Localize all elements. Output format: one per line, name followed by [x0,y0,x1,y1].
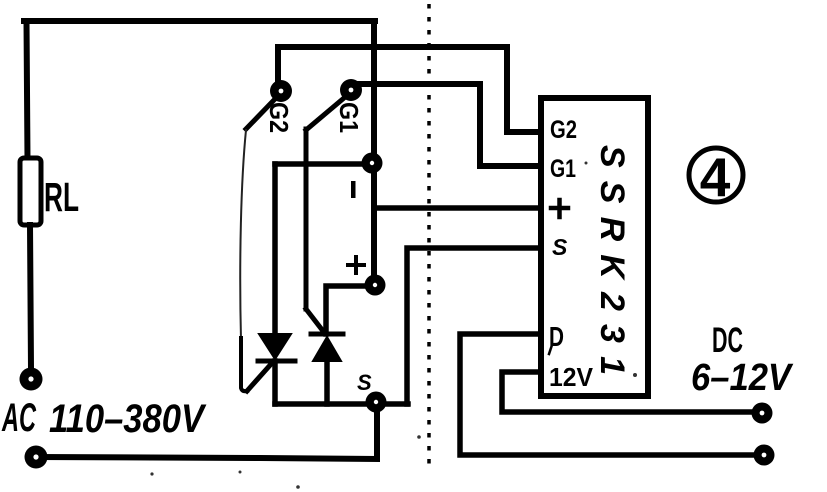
node S [366,392,387,413]
terminal DC upper [752,403,773,424]
svg-text:G2: G2 [264,102,294,133]
switch contact G2 [270,80,292,102]
wire G1 gate lead vertical [304,129,309,309]
wire G1 net: from contact right, down, to module G1 pin [354,84,539,166]
label plus [348,257,364,273]
node minus [362,153,383,174]
svg-text:AC: AC [1,396,36,440]
switch contact G1 [340,79,362,101]
terminal DC lower [754,445,775,466]
wire + node to right SCR cathode [326,286,374,334]
scan specks [150,162,637,489]
svg-text:RL: RL [44,174,79,220]
resistor RL [20,158,41,225]
svg-text:6–12V: 6–12V [691,357,793,399]
svg-text:S: S [552,234,568,260]
switch arm G1 [306,98,344,130]
wire top horizontal [24,18,375,24]
node plus [365,275,386,296]
svg-text:S: S [357,370,372,395]
svg-text:12V: 12V [549,362,594,392]
wire AC bottom run to S node [36,403,377,459]
svg-text:G1: G1 [550,155,576,183]
circled 4 [689,148,743,202]
thyristor V2 (right SCR, conducts upward) [306,309,343,404]
wire + pin of module [374,205,539,211]
wire bottom bar between SCRs and S node [275,401,408,407]
svg-text:G2: G2 [550,116,577,144]
wire node to left SCR anode [275,161,372,167]
module SSRK231 box [541,98,648,396]
thyristor V1 (left SCR, conducts downward) [247,164,295,404]
wire G2 net: from contact up, over to module G2 pin [278,47,541,132]
wire main vertical from top corner to + node [371,21,377,284]
wire module 12V pin to DC upper terminal [502,372,762,412]
wire module D pin to DC lower terminal [460,334,764,455]
label minus (rotated bar) [351,181,356,198]
wire S to module S pin [407,248,539,404]
pin label + [551,200,568,217]
wire left vertical to RL top [27,21,28,160]
wire RL bottom lead [30,225,31,368]
terminal AC lower [25,446,48,469]
terminal AC upper [20,368,43,391]
svg-text:110–380V: 110–380V [49,397,207,441]
svg-text:4: 4 [700,146,731,208]
svg-text:G1: G1 [334,102,364,133]
switch arm G2 [246,100,274,129]
wire G2 gate lead (thin arc) [240,130,246,340]
dotted separation line [427,4,431,470]
svg-text:DC: DC [712,321,743,360]
